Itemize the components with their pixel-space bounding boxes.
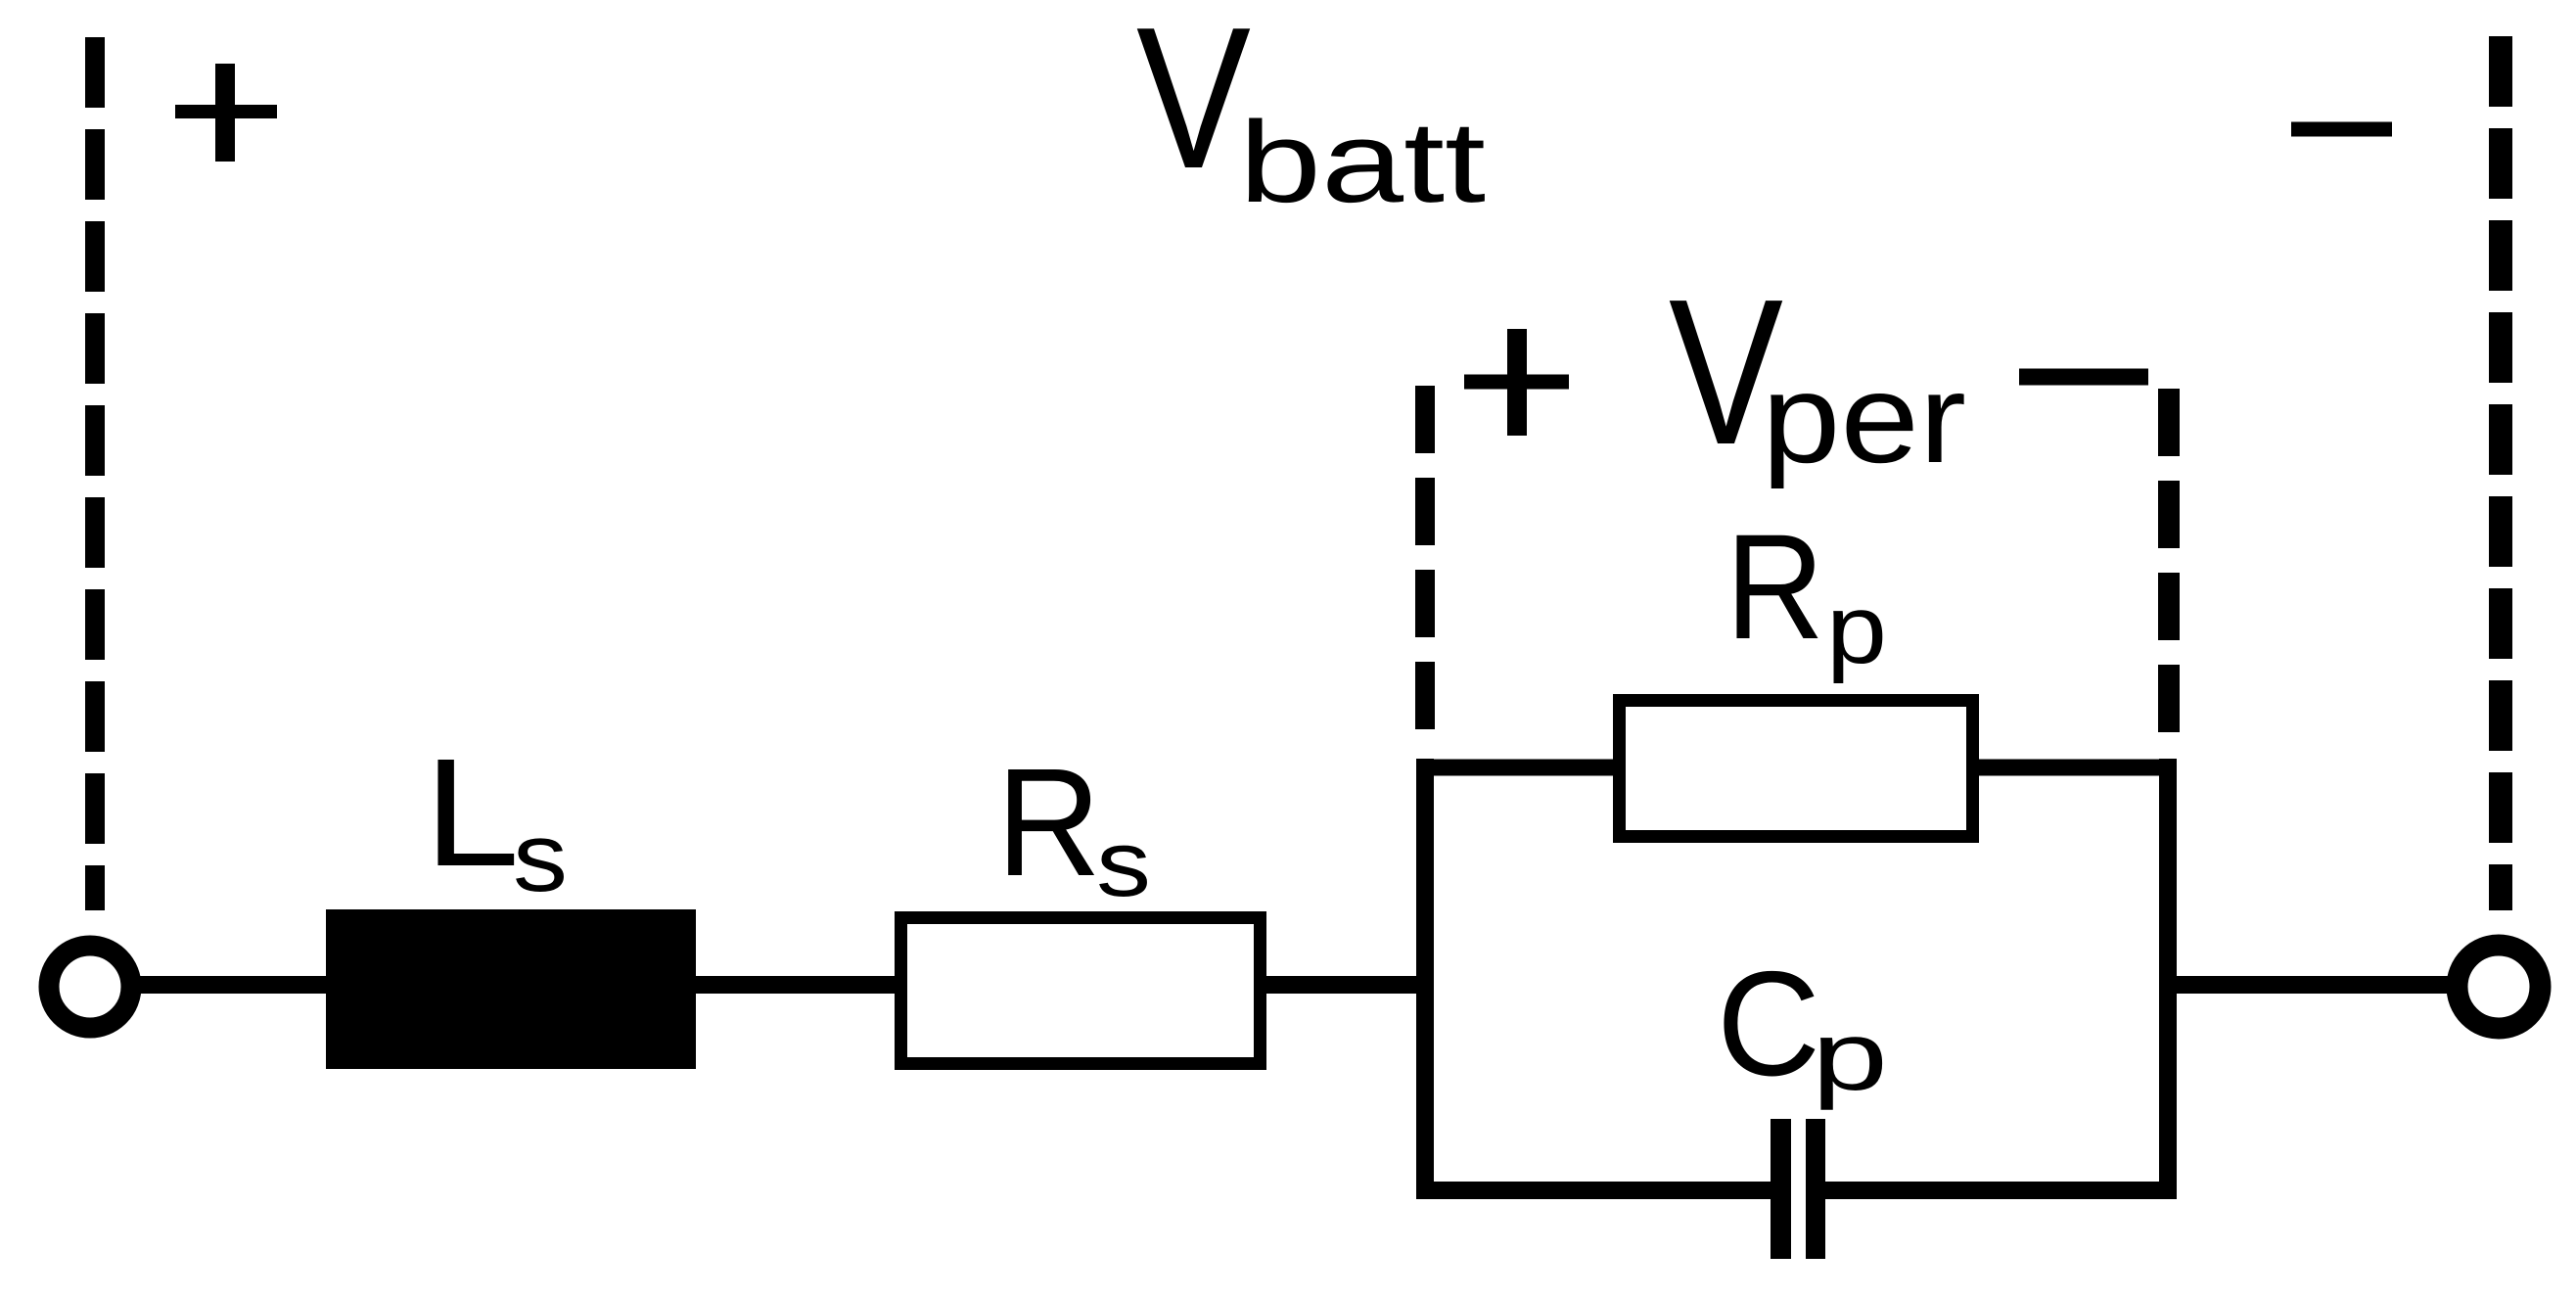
wire: right vertical of parallel block to right terminal bbox=[2168, 976, 2455, 994]
svg-text:p: p bbox=[1826, 575, 1887, 684]
minus sign (Vbatt -) bbox=[2291, 122, 2392, 137]
svg-text:s: s bbox=[513, 803, 568, 912]
wire: parallel block top branch bbox=[1416, 760, 2177, 776]
svg-text:L: L bbox=[424, 727, 520, 899]
wire: parallel block bottom branch left segment bbox=[1416, 1182, 1773, 1199]
label Ls bbox=[424, 727, 568, 912]
svg-text:per: per bbox=[1762, 347, 1966, 489]
wire: main horizontal from left terminal to parallel block bbox=[135, 976, 1425, 994]
wire: parallel block left vertical bbox=[1416, 759, 1434, 1199]
plus sign (Vbatt +) bbox=[175, 64, 277, 162]
capacitor Cp right plate bbox=[1806, 1119, 1825, 1259]
resistor Rs bbox=[901, 918, 1261, 1064]
svg-text:V: V bbox=[1136, 0, 1251, 210]
minus sign (Vper -) bbox=[2019, 369, 2148, 386]
svg-text:batt: batt bbox=[1239, 98, 1486, 227]
label Rp bbox=[1725, 503, 1887, 684]
svg-text:C: C bbox=[1717, 941, 1820, 1107]
dashed measurement line left (Vbatt +) bbox=[85, 37, 105, 910]
dashed measurement line right (Vbatt -) bbox=[2489, 36, 2512, 910]
inductor Ls bbox=[326, 909, 696, 1069]
right terminal (node -) bbox=[2458, 946, 2541, 1029]
label Rs bbox=[996, 737, 1151, 916]
label Vbatt bbox=[1136, 0, 1486, 227]
svg-text:R: R bbox=[1725, 503, 1824, 671]
wire: parallel block bottom branch right segment bbox=[1822, 1182, 2177, 1199]
plus sign (Vper +) bbox=[1464, 329, 1569, 436]
dashed measurement line inner-right (Vper -) bbox=[2158, 389, 2180, 732]
capacitor Cp left plate bbox=[1771, 1119, 1791, 1259]
left terminal (node +) bbox=[49, 946, 131, 1028]
svg-text:p: p bbox=[1812, 1001, 1888, 1111]
svg-text:s: s bbox=[1096, 812, 1151, 916]
svg-text:R: R bbox=[996, 737, 1101, 908]
label Cp bbox=[1717, 941, 1888, 1111]
dashed measurement line inner-left (Vper +) bbox=[1415, 386, 1435, 729]
label Vper bbox=[1669, 255, 1966, 489]
resistor Rp bbox=[1620, 701, 1973, 837]
wire: parallel block right vertical bbox=[2159, 759, 2177, 1199]
